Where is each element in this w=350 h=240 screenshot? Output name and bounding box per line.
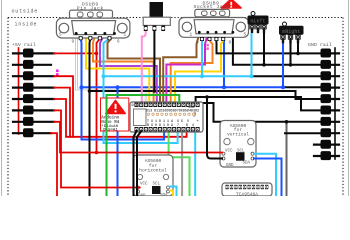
- wire black GND run to rail row5: [90, 91, 327, 99]
- wire black branch to AS5600 vertical GND: [207, 97, 222, 159]
- wire red +5V branch down to bottom: [51, 133, 57, 196]
- wire cyan AS5600v SCL down: [254, 154, 276, 196]
- svg-text:vertical: vertical: [227, 132, 249, 138]
- wire black GND row3 stub: [252, 75, 327, 77]
- svg-text:9: 9: [229, 41, 232, 46]
- window right edge: [348, 0, 350, 196]
- J1 pin numbers: [59, 33, 127, 45]
- svg-text:GND: GND: [188, 106, 194, 110]
- wire yellow AS5600h SDA down: [170, 191, 173, 197]
- GND rail terminal blocks: [321, 49, 332, 161]
- +5V rail red bus: [18, 48, 20, 134]
- wire gray nano bottom down: [181, 130, 183, 196]
- wire brown J2 to nano mid: [163, 34, 199, 102]
- op note Arduino warning box: [101, 98, 129, 132]
- wire black switch down: [153, 30, 155, 91]
- svg-text:horizontal: horizontal: [139, 168, 167, 174]
- svg-text:mLeft: mLeft: [250, 19, 265, 25]
- wire red +5V to horizontal board side: [54, 88, 70, 137]
- +5V rail terminal stubs: [13, 53, 54, 133]
- wire green nano bottom to TCA area: [169, 130, 190, 196]
- wire red +5V to nano Vin: [54, 99, 187, 137]
- svg-text:SCL: SCL: [153, 183, 161, 187]
- U1 pin hole circles: [136, 104, 199, 130]
- switch SW1 slide: [143, 2, 170, 31]
- wire cyan mLeft lead: [251, 33, 253, 76]
- wire red J1 branch down to 5V line: [96, 53, 98, 152]
- U1 silkscreen labels: [132, 104, 200, 128]
- wire black nano bottom pin2 down: [137, 131, 141, 196]
- wire cyan J2 down to bus: [201, 41, 203, 77]
- node pink marks near magenta: [206, 44, 209, 47]
- svg-text:6: 6: [117, 40, 120, 45]
- wire blue J2 branch: [223, 34, 226, 88]
- microswitch mRight: [279, 22, 304, 43]
- junction cyan: [102, 74, 106, 78]
- J1 top pins: [75, 32, 116, 35]
- wire blue bus to GND rail row4: [82, 86, 284, 88]
- U1 top header pins: [135, 103, 200, 107]
- svg-text:+: +: [197, 120, 199, 124]
- svg-text:6: 6: [196, 41, 199, 46]
- wire black nano bottom pin1 down: [134, 131, 137, 196]
- svg-text:mRight: mRight: [282, 29, 300, 35]
- wire white J1 pin to nano D12: [76, 34, 146, 102]
- wire gray from GND row7 down: [286, 122, 288, 196]
- svg-text:inside: inside: [15, 22, 38, 28]
- junction black switch: [153, 89, 157, 93]
- svg-text:D12: D12: [132, 104, 138, 108]
- wire black mRight pins down: [291, 42, 299, 65]
- module U1 Arduino Nano R4: [130, 102, 203, 132]
- GND rail terminal stubs: [314, 53, 339, 156]
- U1 inner hole row: [147, 113, 194, 115]
- node magenta stub marks: [56, 70, 59, 73]
- svg-text:GND: GND: [226, 164, 234, 168]
- svg-text:outside: outside: [12, 9, 39, 15]
- wire magenta J2 to nano D7: [166, 34, 207, 102]
- wire brown J1 to nano D11: [108, 34, 161, 102]
- svg-text:RX0: RX0: [147, 124, 157, 128]
- wire black GND row4 stub: [283, 86, 326, 88]
- wire black nano GND2 to rail row7: [199, 103, 326, 122]
- junction blue: [80, 85, 84, 89]
- wire yellow J2 to nano D5: [175, 41, 223, 103]
- wire cyan branch to nano bottom D3: [104, 76, 178, 143]
- U1 bottom header pins: [135, 127, 200, 131]
- J2 warning triangle: [221, 0, 241, 8]
- connector J1 DSUB9 pin jack: [56, 10, 129, 38]
- wire red +5V to AS5600 horizontal VCC: [54, 110, 140, 187]
- svg-text:1: 1: [190, 33, 193, 38]
- wire pink switch to nano D13: [142, 30, 146, 102]
- svg-text:SDA: SDA: [243, 162, 251, 166]
- microswitch mLeft: [248, 12, 269, 34]
- connector J2 DSUB9 socket jack: [179, 9, 249, 37]
- wire blue J1 pin to nano bottom D2: [81, 39, 164, 140]
- wire blue branch down to bottom: [117, 87, 119, 196]
- svg-text:Pin Jack: Pin Jack: [77, 5, 104, 11]
- svg-text:VCC: VCC: [225, 150, 233, 154]
- wire purple J1 to nano D8: [100, 34, 157, 102]
- svg-text:Socket Jack: Socket Jack: [193, 4, 229, 10]
- wire black mLeft right pin to row2: [263, 32, 265, 65]
- svg-text:5: 5: [244, 33, 247, 38]
- J2 bottom pins: [200, 37, 225, 41]
- svg-text:VCC: VCC: [140, 183, 148, 187]
- wire cyan bus J1 to GND rail row3: [104, 39, 252, 77]
- wire black nano GND to rail row6: [196, 97, 326, 110]
- svg-text:SDA: SDA: [160, 194, 168, 196]
- J2 top pins: [198, 31, 234, 34]
- wire black GND stub row8: [285, 132, 326, 134]
- J1 bottom pins: [79, 36, 112, 40]
- svg-text:GND rail: GND rail: [308, 42, 332, 48]
- wire black J2 pin5 to GND rail row2: [233, 34, 326, 65]
- svg-text:+5V rail: +5V rail: [12, 42, 36, 48]
- wire red +5V to AS5600 vertical VCC: [54, 122, 222, 153]
- window left edge: [1, 0, 3, 196]
- wire inside/outside dotted boundary: [8, 18, 343, 197]
- wire blue mRight to bottom left: [282, 42, 284, 87]
- svg-text:1: 1: [124, 33, 127, 38]
- wire green nano D4 down to bottom: [107, 95, 180, 196]
- wire blue AS5600v SDA down: [254, 159, 282, 197]
- wire black J2 to GND rail: [216, 34, 326, 53]
- wire cyan nano bottom down: [194, 130, 196, 196]
- junction red: [95, 52, 99, 56]
- wire red +5V to J1: [54, 39, 100, 54]
- wire orange J1 to nano D10: [93, 34, 154, 102]
- module U2 AS5600 vertical: [220, 121, 256, 169]
- svg-text:D10: D10: [159, 124, 169, 128]
- GND rail black bus: [334, 48, 336, 159]
- wire yellow J1 to nano D9: [86, 34, 150, 102]
- +5V rail terminal blocks: [23, 49, 34, 138]
- svg-text:5: 5: [59, 33, 62, 38]
- wire red +5V to AS5600 horizontal VCC: [54, 76, 73, 137]
- module U3 AS5600 horizontal: [133, 155, 173, 199]
- svg-text:TCA9548A: TCA9548A: [236, 192, 258, 197]
- wire cyan AS5600h SCL down: [170, 187, 177, 197]
- wire orange J2 to nano D6: [171, 41, 213, 103]
- J2 pin numbers: [190, 33, 247, 46]
- wire black J1 down to bottom: [89, 39, 92, 197]
- svg-text:GND: GND: [138, 195, 146, 197]
- module U4 TCA9548A: [222, 183, 272, 198]
- svg-text:9: 9: [72, 40, 75, 45]
